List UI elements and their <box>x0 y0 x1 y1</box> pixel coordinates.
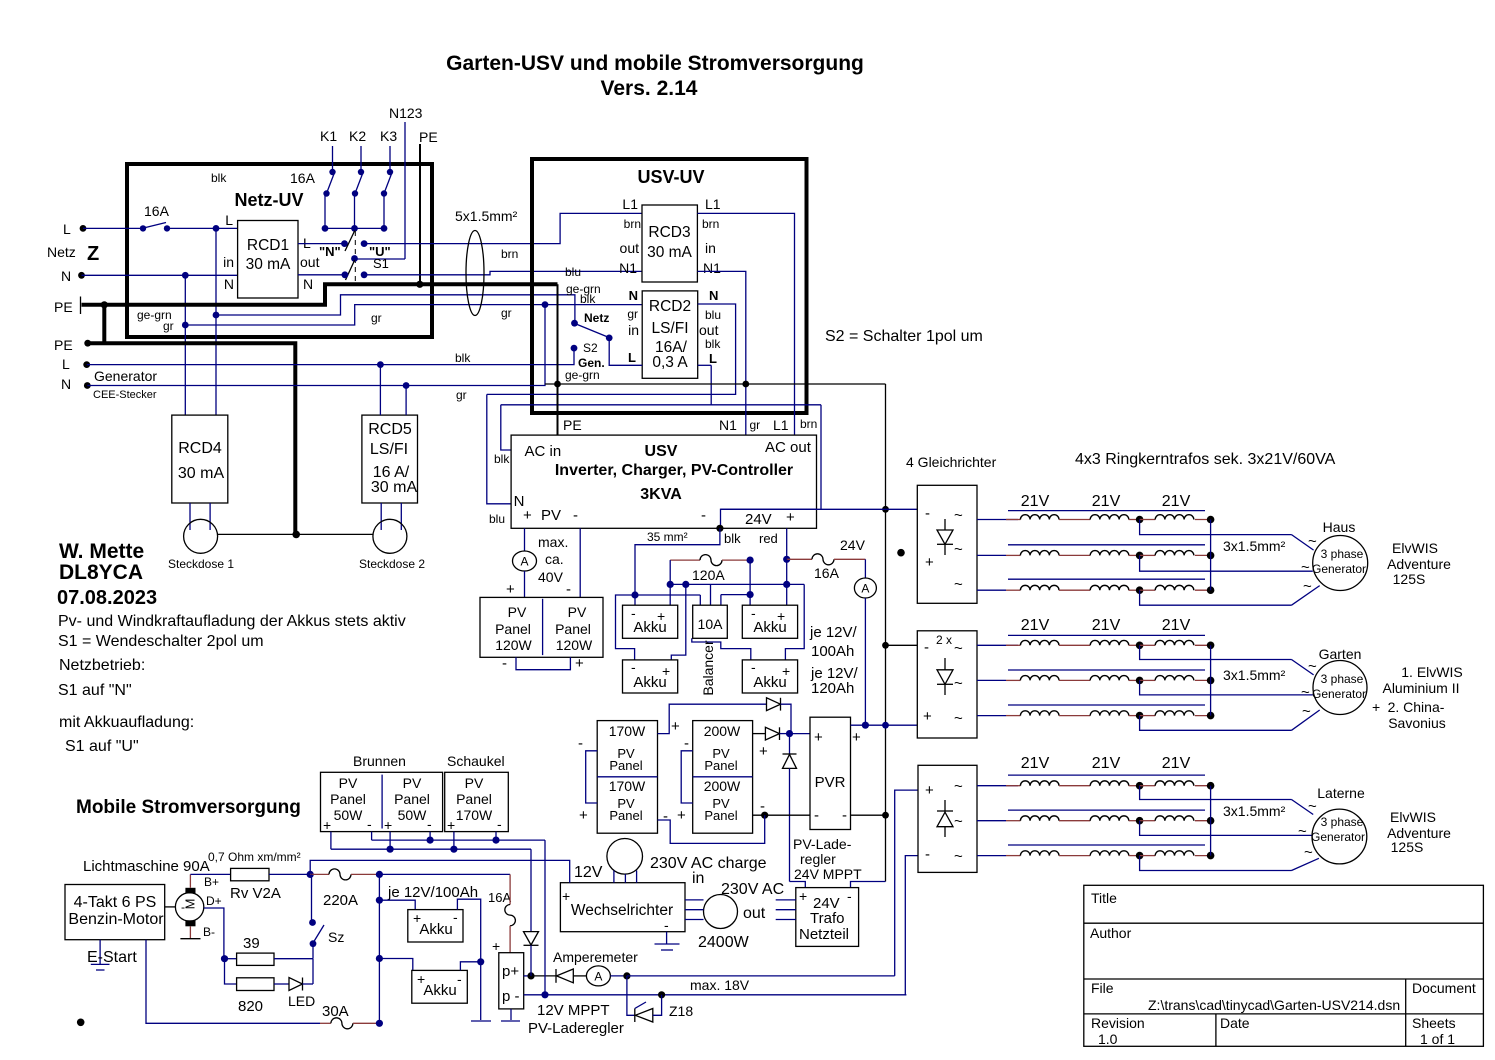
node PE 1 <box>54 297 81 316</box>
svg-text:50W: 50W <box>398 807 428 823</box>
svg-text:3x1.5mm²: 3x1.5mm² <box>1223 667 1286 683</box>
svg-text:gr: gr <box>750 418 761 432</box>
svg-text:Mobile Stromversorgung: Mobile Stromversorgung <box>76 797 301 818</box>
svg-text:blk: blk <box>580 292 596 306</box>
svg-text:21V: 21V <box>1092 755 1121 772</box>
svg-text:brn: brn <box>702 217 719 231</box>
svg-text:35 mm²: 35 mm² <box>647 530 688 544</box>
wire bank3+ riser <box>895 790 918 976</box>
svg-text:~: ~ <box>1303 578 1312 595</box>
transformer T1 row 1 <box>1006 511 1314 550</box>
svg-text:S1 = Wendeschalter 2pol um: S1 = Wendeschalter 2pol um <box>58 633 264 650</box>
svg-text:+: + <box>786 509 795 526</box>
svg-text:brn: brn <box>501 247 518 261</box>
svg-text:Steckdose 1: Steckdose 1 <box>168 557 234 571</box>
wire 170W series link <box>578 735 597 824</box>
svg-text:10A: 10A <box>698 616 724 632</box>
transformer T2 star bus <box>1210 645 1212 715</box>
svg-text:PV: PV <box>465 775 484 791</box>
svg-text:~: ~ <box>954 541 963 558</box>
svg-text:21V: 21V <box>1162 755 1191 772</box>
main 12V bus vertical <box>376 874 383 1023</box>
svg-text:~: ~ <box>954 778 963 795</box>
svg-text:-: - <box>925 505 930 522</box>
svg-text:K1: K1 <box>320 128 337 144</box>
rectifier GL2 <box>917 631 977 738</box>
svg-text:Title: Title <box>1091 890 1117 906</box>
svg-text:p -: p - <box>502 988 520 1005</box>
wire RCD5 feeds <box>380 365 406 416</box>
svg-text:170W: 170W <box>456 807 493 823</box>
svg-text:+: + <box>523 507 532 524</box>
svg-text:PV-Laderegler: PV-Laderegler <box>528 1020 624 1037</box>
wire GL3 outputs <box>977 786 1018 856</box>
svg-text:PV: PV <box>339 775 358 791</box>
switch Sz <box>309 874 344 958</box>
wire N (blu) to USV N <box>487 394 511 503</box>
svg-text:Z: Z <box>87 243 99 265</box>
svg-text:LED: LED <box>288 993 315 1009</box>
label 35mm2 blk red <box>647 530 778 546</box>
svg-text:Panel: Panel <box>555 621 591 637</box>
svg-text:Netz-UV: Netz-UV <box>234 190 303 210</box>
svg-text:Date: Date <box>1220 1015 1250 1031</box>
svg-text:blk: blk <box>211 171 227 185</box>
PV Panel 120W pair <box>480 597 603 657</box>
wire brn (S1 to RCD3) <box>364 213 642 243</box>
wire to Akku4+ <box>785 584 804 660</box>
svg-text:W. Mette: W. Mette <box>59 540 144 563</box>
transformer T2 row 1 <box>1006 635 1314 675</box>
svg-text:LS/FI: LS/FI <box>370 441 408 458</box>
svg-text:4x3 Ringkerntrafos sek. 3x21V/: 4x3 Ringkerntrafos sek. 3x21V/60VA <box>1075 451 1336 468</box>
svg-text:~: ~ <box>1308 798 1317 815</box>
svg-text:1 of 1: 1 of 1 <box>1420 1031 1455 1047</box>
svg-text:Panel: Panel <box>495 621 531 637</box>
resistor Rv V2A <box>208 850 314 902</box>
svg-text:-: - <box>751 659 756 675</box>
wire mid tap to Akku2+ <box>671 584 686 660</box>
transformer T2 row 2 <box>1006 670 1313 695</box>
svg-text:Savonius: Savonius <box>1388 715 1446 731</box>
label je 12V/100Ah <box>809 624 858 660</box>
svg-text:1.0: 1.0 <box>1098 1031 1118 1047</box>
svg-text:2400W: 2400W <box>698 934 750 951</box>
svg-text:AC out: AC out <box>765 439 812 456</box>
svg-text:RCD4: RCD4 <box>178 440 222 457</box>
battery Akku (mobile top) <box>379 900 463 942</box>
wire 24V+ red / fuse 16A / amperemeter A2 <box>783 528 876 725</box>
svg-text:16A: 16A <box>290 170 316 186</box>
svg-text:~: ~ <box>1304 844 1313 861</box>
diode D2 (200W+) <box>753 727 810 760</box>
wire 170W- riser <box>658 815 765 843</box>
svg-text:230V AC: 230V AC <box>721 881 784 898</box>
PE drop into USV <box>554 284 561 436</box>
svg-text:220A: 220A <box>323 892 358 909</box>
RCD4 <box>172 415 228 503</box>
resistor 39 <box>221 935 313 965</box>
svg-text:21V: 21V <box>1092 617 1121 634</box>
svg-text:-: - <box>847 888 852 904</box>
transformer T1 star bus <box>1210 520 1212 591</box>
svg-text:30 mA: 30 mA <box>246 256 291 273</box>
svg-text:Garten-USV und mobile Stromver: Garten-USV und mobile Stromversorgung <box>446 52 864 75</box>
RCD2 <box>627 288 721 378</box>
wire Akku4- link <box>692 638 751 660</box>
generator Haus <box>1301 519 1368 595</box>
svg-text:Brunnen: Brunnen <box>353 753 406 769</box>
switch 16A (Netz L) <box>83 203 170 232</box>
label Generator / CEE-Stecker <box>93 368 157 401</box>
svg-text:+: + <box>323 817 331 833</box>
svg-text:Rv V2A: Rv V2A <box>230 885 281 902</box>
svg-text:Aluminium II: Aluminium II <box>1382 680 1459 696</box>
svg-text:L1: L1 <box>705 196 721 212</box>
svg-text:N: N <box>61 376 71 392</box>
svg-text:B+: B+ <box>204 875 219 889</box>
svg-text:-: - <box>502 655 507 672</box>
svg-text:Benzin-Motor: Benzin-Motor <box>68 911 164 928</box>
svg-text:p+: p+ <box>502 963 519 980</box>
svg-text:~: ~ <box>954 848 963 865</box>
svg-text:120A: 120A <box>692 567 725 583</box>
svg-text:Akku: Akku <box>633 674 666 691</box>
RCD3 <box>619 196 721 282</box>
svg-text:Amperemeter: Amperemeter <box>553 949 638 965</box>
svg-text:brn: brn <box>624 217 641 231</box>
svg-text:L: L <box>62 356 70 372</box>
svg-text:A: A <box>594 970 602 984</box>
svg-text:30 mA: 30 mA <box>647 244 692 261</box>
svg-text:N123: N123 <box>389 105 423 121</box>
wire Akku1+ riser <box>667 560 674 605</box>
svg-text:Panel: Panel <box>394 791 430 807</box>
svg-text:Trafo: Trafo <box>810 910 844 927</box>
wire 120A to Akku3- <box>747 560 754 605</box>
wire engine bottom rail <box>146 940 320 1024</box>
svg-text:~: ~ <box>954 710 963 727</box>
svg-text:170W: 170W <box>609 723 646 739</box>
cable 5x1.5mm2 <box>455 208 518 316</box>
svg-text:+: + <box>759 743 768 760</box>
zener Z18 <box>627 976 693 1022</box>
svg-text:~: ~ <box>1301 684 1310 701</box>
fan symbol (charger) <box>607 839 643 883</box>
author block <box>57 540 406 755</box>
generator Garten <box>1301 646 1367 720</box>
socket Steckdose 1 <box>168 503 234 571</box>
svg-text:Akku: Akku <box>423 982 456 999</box>
svg-text:in: in <box>223 254 234 270</box>
svg-text:1. ElvWIS: 1. ElvWIS <box>1401 664 1462 680</box>
wire socket PE link <box>217 531 373 539</box>
svg-text:brn: brn <box>800 417 817 431</box>
wire p- line <box>524 991 907 998</box>
wire B+ <box>190 874 230 887</box>
svg-text:+: + <box>677 807 686 824</box>
svg-text:~: ~ <box>954 675 963 692</box>
wire L drop to RCD4 <box>213 228 220 415</box>
svg-text:out: out <box>620 240 640 256</box>
svg-text:B-: B- <box>203 925 215 939</box>
wire Akku1- to Akku2- <box>616 595 636 660</box>
svg-text:Netzteil: Netzteil <box>799 926 849 943</box>
svg-text:~: ~ <box>1308 533 1317 550</box>
svg-text:Garten: Garten <box>1319 646 1362 662</box>
transformer T3 row 3 <box>1006 845 1319 871</box>
labels 21V (bank T3) <box>1021 755 1191 772</box>
svg-text:+: + <box>575 655 584 672</box>
switch S1 pole 1 <box>298 231 391 260</box>
svg-text:gr: gr <box>456 388 467 402</box>
transformer T3 row 1 <box>1006 775 1313 814</box>
wire to Trafo minus <box>851 882 886 888</box>
wire Z-diode to Trafo+ <box>790 882 806 888</box>
svg-text:RCD5: RCD5 <box>368 421 412 438</box>
transformer T3 star bus <box>1210 786 1212 856</box>
wire RCD2 N out <box>487 304 736 394</box>
svg-text:gr: gr <box>627 307 638 321</box>
wire PV+ with amperemeter A1 <box>506 528 537 598</box>
svg-text:blu: blu <box>705 308 721 322</box>
transformer T3 row 2 <box>1006 810 1312 835</box>
ground (Wechselrichter -) <box>655 932 680 950</box>
svg-text:LS/FI: LS/FI <box>651 320 688 337</box>
svg-text:max.: max. <box>538 534 568 550</box>
svg-text:Laterne: Laterne <box>1317 785 1365 801</box>
svg-text:Akku: Akku <box>419 921 452 938</box>
RCD1 <box>223 212 319 298</box>
svg-text:blk: blk <box>455 351 471 365</box>
svg-text:N: N <box>709 288 718 303</box>
svg-text:+: + <box>562 888 570 904</box>
svg-text:out: out <box>743 905 766 922</box>
svg-text:-: - <box>578 735 583 752</box>
svg-text:N: N <box>629 288 638 303</box>
label Amperemeter <box>553 949 638 965</box>
label max. 18V <box>690 977 750 993</box>
wire PV120 series link <box>502 655 584 672</box>
svg-text:+: + <box>671 718 680 735</box>
svg-text:200W: 200W <box>704 723 741 739</box>
PVR charge controller <box>810 717 861 829</box>
svg-text:Generator: Generator <box>1311 830 1365 844</box>
svg-text:Netzbetrieb:: Netzbetrieb: <box>59 657 145 674</box>
svg-text:Generator: Generator <box>94 368 157 384</box>
svg-text:+: + <box>1372 699 1380 715</box>
battery Akku4 <box>742 659 797 693</box>
svg-text:24V: 24V <box>745 511 772 528</box>
node L (Generator) <box>62 356 90 372</box>
svg-text:12V MPPT: 12V MPPT <box>537 1002 610 1019</box>
label S2 = Schalter 1pol um <box>825 328 983 345</box>
svg-text:-: - <box>664 917 669 933</box>
svg-text:3KVA: 3KVA <box>640 486 682 503</box>
label PV-Laderegler 24V MPPT <box>793 836 862 882</box>
svg-text:2. China-: 2. China- <box>1388 699 1445 715</box>
wire K bus <box>325 227 384 229</box>
svg-text:DL8YCA: DL8YCA <box>59 561 143 584</box>
svg-text:-: - <box>760 798 765 815</box>
svg-text:5x1.5mm²: 5x1.5mm² <box>455 208 518 224</box>
svg-text:blk: blk <box>494 452 510 466</box>
svg-text:-: - <box>684 735 689 752</box>
wire Akku top minus <box>457 899 491 1021</box>
wire GL1 outputs <box>977 520 1018 591</box>
label max ca 40V <box>538 534 568 585</box>
switch S2 <box>565 311 613 382</box>
svg-text:Haus: Haus <box>1323 519 1356 535</box>
svg-text:L: L <box>225 212 233 228</box>
label Balancer (rotated) <box>700 640 716 696</box>
svg-text:L: L <box>63 221 71 237</box>
wire Generator L to S2 Gen <box>87 348 574 368</box>
svg-text:21V: 21V <box>1021 493 1050 510</box>
svg-text:max. 18V: max. 18V <box>690 977 750 993</box>
label 3x1.5mm2 (Laterne) <box>1223 803 1286 819</box>
svg-text:N1: N1 <box>719 417 737 433</box>
svg-text:PE: PE <box>419 129 438 145</box>
svg-text:N: N <box>224 276 234 292</box>
generator Laterne <box>1298 785 1367 864</box>
svg-text:21V: 21V <box>1092 493 1121 510</box>
svg-text:21V: 21V <box>1162 493 1191 510</box>
wire gr drop <box>544 305 546 384</box>
svg-text:Panel: Panel <box>456 791 492 807</box>
wire PV minus bus (black) <box>663 798 886 825</box>
wire ge-grn <box>137 295 575 333</box>
title text <box>446 52 864 100</box>
svg-text:A: A <box>861 582 869 596</box>
svg-text:L1: L1 <box>622 196 638 212</box>
PE bus thick <box>82 281 558 344</box>
svg-text:mit Akkuaufladung:: mit Akkuaufladung: <box>59 714 194 731</box>
svg-text:-: - <box>663 808 668 825</box>
svg-text:-: - <box>925 846 930 863</box>
wire bank3- riser <box>905 856 918 995</box>
battery Akku (mobile bottom) <box>379 959 467 1004</box>
svg-text:-: - <box>631 659 636 675</box>
node L (Netz) <box>63 221 86 237</box>
wire 24V+ bus to rectifier 1 <box>721 508 918 510</box>
svg-text:24V MPPT: 24V MPPT <box>794 866 862 882</box>
transformer T2 row 3 <box>1006 705 1320 730</box>
fuse 30A <box>320 1003 383 1029</box>
svg-text:07.08.2023: 07.08.2023 <box>57 587 157 609</box>
svg-text:Lichtmaschine 90A: Lichtmaschine 90A <box>83 858 210 875</box>
isolated dot <box>897 549 905 557</box>
svg-text:3x1.5mm²: 3x1.5mm² <box>1223 538 1286 554</box>
svg-text:N1: N1 <box>703 260 721 276</box>
svg-text:Pv- und Windkraftaufladung der: Pv- und Windkraftaufladung der Akkus ste… <box>58 613 406 630</box>
RCD5 <box>362 415 418 503</box>
svg-text:~: ~ <box>954 640 963 657</box>
svg-text:-: - <box>566 581 571 598</box>
svg-text:File: File <box>1091 980 1114 996</box>
svg-text:~: ~ <box>954 507 963 524</box>
label 230V AC charge in <box>650 855 767 887</box>
charge controller p+/p- <box>492 938 524 1021</box>
svg-text:170W: 170W <box>609 778 646 794</box>
svg-text:Generator: Generator <box>1312 687 1366 701</box>
svg-text:gr: gr <box>371 311 382 325</box>
svg-text:~: ~ <box>1308 658 1317 675</box>
isolated dot <box>77 1019 85 1027</box>
svg-text:Steckdose 2: Steckdose 2 <box>359 557 425 571</box>
svg-text:24V: 24V <box>840 537 866 553</box>
wire N to RCD1 <box>82 272 238 279</box>
E-Start ground <box>87 940 137 970</box>
balancer pin wires <box>635 584 750 605</box>
svg-text:3x1.5mm²: 3x1.5mm² <box>1223 803 1286 819</box>
svg-text:N1: N1 <box>619 260 637 276</box>
svg-text:gr: gr <box>163 319 174 333</box>
Trafo Netzteil 24V <box>796 888 859 947</box>
svg-text:-: - <box>367 816 372 832</box>
svg-text:S1 auf "N": S1 auf "N" <box>58 682 132 699</box>
svg-text:PE: PE <box>54 337 73 353</box>
svg-text:-: - <box>701 507 706 524</box>
svg-text:Panel: Panel <box>704 808 737 823</box>
svg-text:Inverter, Charger, PV-Controll: Inverter, Charger, PV-Controller <box>555 462 793 479</box>
svg-text:in: in <box>628 322 639 338</box>
svg-text:blk: blk <box>724 531 741 546</box>
USV inverter box <box>511 417 817 528</box>
PV panel 200W double <box>693 721 753 834</box>
svg-text:+: + <box>447 817 455 833</box>
node N (Netz) <box>61 268 85 284</box>
svg-text:E-Start: E-Start <box>87 949 137 966</box>
battery Akku3 <box>742 605 797 638</box>
svg-text:Sz: Sz <box>328 929 344 945</box>
switch S1 link (dashed) <box>354 231 356 282</box>
svg-text:Document: Document <box>1412 980 1476 996</box>
wire red to Akku3+ <box>783 559 790 605</box>
relay contact K2 <box>349 128 366 232</box>
svg-text:Balancer: Balancer <box>700 640 716 696</box>
fuse 220A <box>310 869 383 909</box>
svg-text:in: in <box>705 240 716 256</box>
svg-text:+: + <box>925 782 934 799</box>
diode D1 (170W+) <box>658 698 792 735</box>
svg-text:30 mA: 30 mA <box>178 465 225 482</box>
wire 200W series link <box>677 735 693 824</box>
wire D+ <box>204 908 224 959</box>
wire L1 out (RCD3 right) <box>697 213 794 436</box>
svg-text:+: + <box>579 807 588 824</box>
relay contact K3 <box>380 128 397 232</box>
svg-text:regler: regler <box>800 851 836 867</box>
svg-text:230V AC charge: 230V AC charge <box>650 855 767 872</box>
labels 21V (bank T1) <box>1021 493 1191 510</box>
svg-text:L1: L1 <box>773 417 789 433</box>
wire GL2 minus feed <box>886 644 918 646</box>
rectifier GL1 <box>917 485 977 603</box>
svg-text:40V: 40V <box>538 569 564 585</box>
socket Steckdose 2 <box>359 503 425 571</box>
resistor 820 <box>225 959 290 1015</box>
svg-text:+: + <box>925 554 934 571</box>
svg-text:PV: PV <box>541 507 561 524</box>
svg-text:125S: 125S <box>1393 571 1426 587</box>
svg-text:0,7 Ohm xm/mm²: 0,7 Ohm xm/mm² <box>208 850 301 864</box>
svg-text:Schaukel: Schaukel <box>447 753 505 769</box>
svg-text:CEE-Stecker: CEE-Stecker <box>93 389 157 401</box>
USV-UV enclosure box <box>532 159 807 413</box>
svg-text:~: ~ <box>1298 823 1307 840</box>
switch S1 pole 2 <box>298 255 389 280</box>
